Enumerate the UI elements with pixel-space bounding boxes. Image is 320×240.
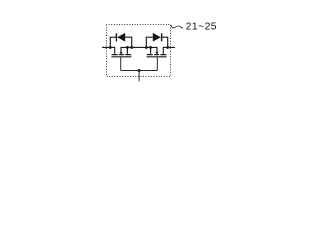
- svg-text:21~25: 21~25: [186, 22, 217, 33]
- junction: Q2 source tap: [149, 46, 152, 49]
- diode D1 cathode bar: [115, 33, 117, 41]
- junction: gate net center: [138, 69, 141, 72]
- junction: D1 right on middle segment: [130, 46, 133, 49]
- mosfet Q1 gate bar: [111, 56, 131, 58]
- wire: D2 bridge right leg: [162, 37, 168, 47]
- junction: D2 left on middle segment: [145, 46, 148, 49]
- junction: Q1 source tap: [126, 46, 129, 49]
- wire: D1 bridge left leg: [110, 37, 116, 47]
- diode D2 triangle (points right): [153, 33, 161, 42]
- wire: left terminal lead + Q1 drain lead: [102, 47, 115, 54]
- package dashed outline: [107, 25, 171, 77]
- leader squiggle to pin label: [171, 25, 183, 28]
- wire: control lead exiting package: [138, 71, 140, 82]
- mosfet Q2 bulk arrow (points down): [155, 52, 158, 54]
- wire: gate net U link: [121, 70, 158, 72]
- wire: D1 bridge right leg: [125, 37, 132, 47]
- diode D1 triangle (points left): [117, 33, 125, 42]
- mosfet Q2 gate bar: [147, 56, 167, 58]
- mosfet Q1 bulk arrow (points down): [120, 52, 123, 54]
- wire: Q2 drain lead + right terminal lead: [163, 47, 175, 54]
- junction: D1 left on left segment: [109, 46, 112, 49]
- diode D2 cathode bar: [161, 33, 163, 41]
- wire: Q2 gate lead: [156, 57, 158, 71]
- wire: D2 bridge left leg: [146, 37, 153, 47]
- mosfet Q2 channel bars: [147, 54, 167, 56]
- wire: middle net (Q1 source/bulk to Q2 source/bulk): [121, 47, 157, 54]
- mosfet Q1 channel bars: [112, 54, 132, 56]
- wire: Q1 gate lead: [120, 57, 122, 71]
- junction: D2 right on right segment: [166, 46, 169, 49]
